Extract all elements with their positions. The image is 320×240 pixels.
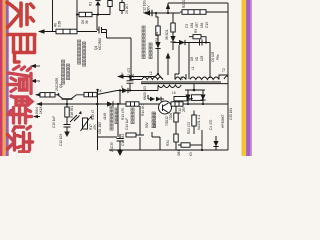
loop vertical x210 (209, 43, 211, 79)
svg-text:HP308KT: HP308KT (221, 114, 225, 128)
annot col near chain A (149, 43, 152, 59)
annotation text column (115, 108, 118, 124)
vertical x202 (201, 130, 203, 150)
junction dot (201, 149, 203, 151)
cap at x120 (117, 134, 124, 150)
svg-text:C13: C13 (205, 22, 209, 28)
left border stripe yellow (3, 0, 6, 156)
stub down at x120 (119, 90, 121, 104)
wire: left vertical feed x52.5 (52, 0, 54, 32)
svg-text:P6s: P6s (216, 54, 220, 60)
resistor box on y104 (126, 102, 139, 106)
polarized cap marks on y13 (150, 10, 153, 16)
box x190 bottom (181, 143, 190, 147)
title dash blob (18, 150, 30, 153)
junction dot (96, 89, 98, 91)
svg-text:+/281: +/281 (177, 150, 181, 156)
junction dot (187, 103, 189, 105)
bottom wire y150 (109, 149, 228, 151)
up arrow x168 above y13 (167, 8, 169, 13)
svg-text:181 1N5: 181 1N5 (98, 122, 102, 134)
secondary rectifier: junction and two down diodes (193, 89, 196, 92)
annotation arrow left y81 (31, 80, 40, 82)
resistor R3 above wire (193, 35, 201, 39)
resistor R22 vertical x194 (192, 115, 196, 126)
annotation text column (131, 108, 134, 124)
chain B vertical x173 (172, 13, 174, 23)
svg-text:C30 181: C30 181 (229, 108, 233, 120)
svg-text:R1: R1 (89, 2, 93, 6)
transformer aux winding (175, 77, 186, 80)
small box x128 (126, 133, 136, 137)
junction dot x168 y13 (167, 12, 169, 14)
svg-text:9D: 9D (195, 56, 199, 61)
svg-text:1K18: 1K18 (39, 106, 43, 114)
junction dot on wire B (119, 89, 121, 91)
svg-text:0.68: 0.68 (58, 21, 62, 27)
small tick left with arrow (34, 116, 40, 118)
resistor box right of Q3 (171, 102, 183, 106)
svg-text:184: 184 (200, 22, 204, 28)
svg-text:C4 470: C4 470 (209, 119, 213, 130)
svg-text:D8: D8 (190, 57, 194, 61)
wire B y90.5 with diode (117, 90, 158, 92)
svg-text:C3: C3 (185, 24, 189, 28)
svg-text:50V: 50V (145, 121, 149, 128)
wire: second vertical feed x77 (76, 0, 78, 32)
junction dot (157, 73, 159, 75)
resistor R19 left (40, 93, 55, 97)
svg-text:R31: R31 (166, 140, 170, 146)
cap bars on y42.5 (200, 40, 203, 46)
junction dot x77 y14.5 (76, 13, 78, 15)
emitter chain x67 down (66, 103, 68, 105)
svg-text:L1: L1 (191, 66, 195, 70)
svg-text:36: 36 (85, 20, 89, 24)
annot col: HV rectifier text (142, 26, 145, 59)
chain A vertical x158 (156, 13, 158, 26)
svg-text:4R7: 4R7 (195, 22, 199, 28)
transistor Q3 circle (159, 101, 172, 114)
diode x216 vertical (215, 136, 217, 141)
transistor Q1 (switch MOSFET) (97, 15, 107, 39)
svg-text:L3: L3 (180, 76, 184, 80)
annotation text column (67, 64, 70, 80)
resistor x176 vertical upper (175, 106, 177, 113)
annot cols lower middle (110, 106, 113, 130)
base wire + left arrow (36, 94, 40, 96)
svg-text:287: 287 (182, 106, 186, 112)
left border stripe magenta (0, 0, 3, 156)
svg-text:R2 220K: R2 220K (182, 0, 186, 8)
svg-text:L2: L2 (149, 71, 153, 75)
svg-text:7206: 7206 (169, 113, 173, 120)
junction dot (96, 103, 98, 105)
diode D6 up at x98 (95, 1, 100, 6)
resistor R1 on y14.5 branch (79, 12, 92, 16)
svg-text:C6 103: C6 103 (211, 51, 215, 62)
annot col: base drive text (62, 60, 65, 84)
wire down then right to transformer (131, 38, 142, 80)
transformer primary coil L2 (142, 77, 163, 80)
annot col: drive signal text (78, 40, 81, 64)
junction dot (96, 103, 98, 105)
wire: mid horizontal y13 with left arrow (144, 12, 180, 14)
svg-text:2SC35: 2SC35 (110, 142, 114, 152)
resistor x176 vertical lower (174, 134, 178, 142)
left border stripe purple (6, 0, 9, 156)
svg-text:38 SD1: 38 SD1 (165, 29, 169, 40)
wire A y76.5 with left arrow (118, 74, 158, 77)
svg-text:R18 391: R18 391 (70, 106, 74, 118)
title char yuan rotated (8, 66, 31, 94)
svg-text:103: 103 (200, 55, 204, 61)
arrowhead left on y13 (143, 11, 150, 15)
transformer terminals (158, 74, 228, 91)
transformer bottom winding (158, 85, 181, 88)
variable resistor R17 (83, 118, 88, 129)
title char dian rotated (8, 35, 35, 63)
arrowhead left on y31.5 wire (38, 29, 45, 33)
wire y42.5 with diode (173, 42, 210, 44)
svg-text:R14 4K7: R14 4K7 (141, 103, 145, 116)
right wire with resistor to wire B (77, 91, 118, 95)
svg-text:R15 47: R15 47 (91, 109, 95, 120)
loop vertical x179 (178, 45, 180, 74)
title char jie rotated (8, 96, 32, 123)
svg-text:SG1 181: SG1 181 (155, 31, 159, 44)
diode down on chain A (155, 42, 160, 49)
cap C4 between wires (129, 75, 131, 77)
svg-text:47K: 47K (93, 123, 97, 130)
transistor Q2 lower-left (inverted BJT) (62, 98, 73, 100)
svg-text:C15 1uF: C15 1uF (52, 116, 56, 128)
svg-text:MC2890: MC2890 (98, 38, 102, 50)
vertical x160 (152, 132, 160, 150)
double diode pair above y104 (150, 97, 161, 102)
transformer secondary coil L1 (190, 77, 219, 80)
main lower horizontal wire y104 (37, 103, 228, 105)
resistor vertical x122 (121, 0, 123, 14)
diode on y104 (107, 101, 113, 106)
annotation text column (152, 112, 155, 128)
junction dot (119, 149, 121, 151)
junction dot (202, 103, 204, 105)
junction dot (205, 41, 207, 43)
title char du rotated (8, 127, 33, 152)
svg-text:KA431 4-1: KA431 4-1 (197, 115, 201, 130)
tiny vertical chinese annotation columns (simulated) (62, 26, 156, 130)
branch horizontal y14.5 (77, 14, 110, 16)
junction dot (129, 89, 131, 91)
svg-text:T2: T2 (222, 68, 226, 72)
svg-text:400V: 400V (147, 5, 151, 13)
LED arrows near x75 (70, 115, 80, 122)
right border stripe pink (250, 0, 252, 156)
feedback arrow up x168 (167, 57, 169, 75)
title char guan rotated (7, 3, 34, 28)
resistor on chain A (156, 26, 160, 35)
lower mid horizontal y137 (97, 136, 117, 138)
cap C12 (64, 125, 71, 132)
vertical right rail x227 (227, 3, 229, 150)
svg-text:4148: 4148 (103, 113, 107, 120)
top right horizontal wire y3 (168, 2, 228, 4)
junction dot (117, 103, 119, 105)
right border stripe yellow (242, 0, 247, 156)
svg-text:R3: R3 (194, 29, 198, 33)
annotation arrow left y66 (31, 65, 40, 67)
svg-text:C14 1uF: C14 1uF (125, 118, 129, 130)
ground arrow down x67 (64, 132, 70, 138)
svg-text:6N00 103: 6N00 103 (143, 86, 147, 100)
resistor R11 horizontal y101 right (174, 97, 187, 101)
annotation text column (83, 42, 86, 66)
wire: horizontal y31.5 with left arrow (39, 31, 97, 33)
svg-text:3K3: 3K3 (189, 152, 193, 156)
resistor on chain B (171, 23, 175, 32)
verticals from y104 (98, 90, 149, 151)
right border stripe purple (246, 0, 250, 156)
tiny labels (illegible in source) (35, 0, 233, 158)
transformer core lines (141, 82, 228, 84)
svg-text:R22 472: R22 472 (187, 122, 191, 134)
loop vertical x189 (188, 43, 190, 80)
svg-text:C19 181: C19 181 (121, 134, 125, 146)
svg-text:L5: L5 (172, 91, 176, 95)
resistor bank horizontal y12 (180, 11, 228, 13)
resistor vertical x110 top (108, 1, 112, 7)
svg-text:2S 207: 2S 207 (125, 4, 129, 14)
junction dot x156 y13 (155, 12, 157, 14)
junction dot (97, 13, 99, 15)
diode down on chain B (170, 36, 175, 42)
ground arrow x120 (117, 151, 123, 157)
resistor R6 (horizontal box on y31.5) (56, 29, 77, 34)
svg-text:181: 181 (190, 22, 194, 28)
svg-text:2N: 2N (131, 73, 135, 78)
svg-text:C12 103: C12 103 (59, 134, 63, 146)
